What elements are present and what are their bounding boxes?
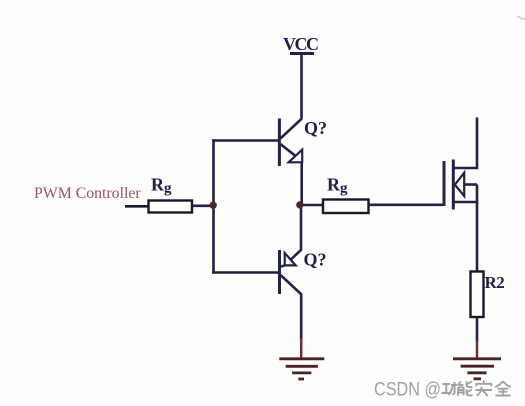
svg-text:Q?: Q?	[304, 250, 327, 270]
svg-text:CSDN @: CSDN @	[374, 379, 441, 401]
wire to ground (red tail, right)	[476, 340, 478, 359]
MOSFET Q3	[444, 118, 477, 210]
body arrow	[455, 173, 464, 196]
wire PWM input	[125, 205, 149, 208]
transistor Q1 (NPN, top)	[279, 119, 302, 167]
gate bar	[443, 161, 446, 206]
wire Q2 base	[212, 271, 278, 274]
wire node B to Rg gate resistor	[303, 204, 324, 207]
power symbol VCC	[283, 34, 318, 54]
ground (left)	[279, 359, 324, 379]
transistor Q2 (PNP, bottom)	[280, 250, 302, 295]
svg-text:PWM Controller: PWM Controller	[34, 185, 141, 202]
source lead	[453, 185, 477, 203]
drain lead	[453, 118, 477, 169]
wire left base bus (vertical)	[212, 139, 215, 274]
ground (right)	[453, 359, 501, 379]
watermark glyph 功	[442, 382, 458, 395]
channel bar	[452, 160, 455, 210]
wire source down to R2	[476, 202, 479, 272]
wire Q2 collector down	[300, 294, 303, 341]
svg-text:R2: R2	[485, 273, 505, 292]
resistor Rg (input)	[149, 201, 193, 213]
resistor R2	[471, 272, 484, 318]
wire Q1 emitter to node B	[300, 162, 303, 207]
watermark glyph 全	[495, 381, 511, 395]
wire Rg to node A	[192, 205, 214, 208]
wire to ground (red tail, left)	[300, 338, 302, 359]
wire VCC to Q1 collector	[300, 54, 303, 119]
node A (junction dot)	[210, 202, 217, 209]
wire Q1 base	[212, 139, 278, 142]
watermark glyph 能	[458, 381, 472, 395]
wire node B to Q2 emitter	[300, 205, 303, 251]
node B (output junction dot)	[296, 201, 303, 208]
resistor Rg (gate)	[323, 200, 369, 214]
svg-text:Q?: Q?	[304, 118, 327, 138]
wire R2 down	[476, 317, 479, 342]
svg-text:VCC: VCC	[283, 34, 318, 54]
watermark glyph 安	[476, 381, 493, 397]
wire Rg to MOSFET gate	[369, 204, 444, 207]
watermark CSDN @功能安全	[374, 379, 511, 401]
faint artifact top-right	[517, 17, 525, 20]
